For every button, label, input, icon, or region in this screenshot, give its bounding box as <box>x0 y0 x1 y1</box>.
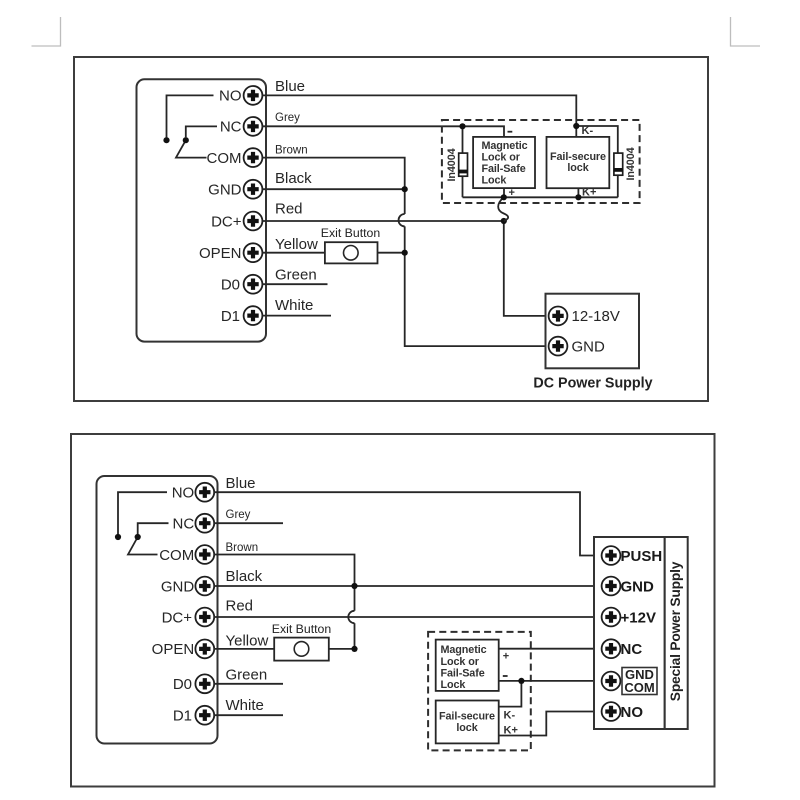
terminal block J2 <box>97 476 218 744</box>
svg-text:Special Power Supply: Special Power Supply <box>668 561 683 701</box>
svg-text:K-: K- <box>504 710 516 722</box>
PS2 terminal GND <box>602 577 654 596</box>
svg-text:Exit Button: Exit Button <box>321 226 381 240</box>
svg-text:Magnetic: Magnetic <box>482 140 528 152</box>
svg-text:Yellow: Yellow <box>275 236 318 253</box>
svg-text:In4004: In4004 <box>625 147 637 180</box>
svg-text:+: + <box>503 651 509 663</box>
wire: magnetic lock + to NC terminal of PS2 <box>499 648 601 650</box>
svg-text:lock: lock <box>567 162 589 174</box>
PS2 terminal PUSH <box>602 546 663 565</box>
svg-text:D1: D1 <box>221 308 240 325</box>
terminal NC (J2 pin 2) <box>173 514 215 533</box>
svg-text:Green: Green <box>275 267 317 284</box>
junction dot: fail-secure K+ on bottom rail <box>575 194 581 200</box>
wire Green: D0 stub <box>214 683 283 685</box>
wire: exit button to brown vertical junction <box>329 648 355 650</box>
svg-text:OPEN: OPEN <box>152 641 195 658</box>
svg-text:Black: Black <box>226 568 263 585</box>
svg-text:Red: Red <box>226 597 254 614</box>
svg-text:Grey: Grey <box>275 112 300 124</box>
lock group dashed enclosure (top) <box>442 120 640 203</box>
terminal NC (J1 pin 2) <box>220 117 263 136</box>
svg-text:GND: GND <box>161 578 195 595</box>
wire Green: D0 stub <box>262 283 328 285</box>
svg-text:D1: D1 <box>173 708 192 725</box>
wire Black: GND terminal to brown vertical junction <box>262 188 405 190</box>
wire White: D1 stub <box>262 315 331 317</box>
crop mark top-left <box>32 17 61 46</box>
wire: fail-secure K+ to NO terminal of PS2 <box>499 712 601 736</box>
wire: diode D1 leads <box>462 126 464 197</box>
junction dot: blue wire at K- rail <box>573 123 579 129</box>
panel 2 border (bottom diagram) <box>71 434 715 787</box>
wire Red: DC+ terminal to lock + junction <box>262 220 504 222</box>
terminal GND (J2 pin 4) <box>161 577 214 596</box>
wire Yellow: OPEN terminal to exit button <box>214 648 274 650</box>
terminal COM (J2 pin 3) <box>159 545 214 564</box>
junction dot: black wire joins brown vertical <box>402 186 408 192</box>
svg-text:Brown: Brown <box>226 542 259 554</box>
relay switch S1: NC contact wire <box>186 126 217 137</box>
wire White: D1 stub <box>214 714 283 716</box>
terminal D1 (J2 pin 8) <box>173 706 214 725</box>
svg-text:Fail-secure: Fail-secure <box>439 710 495 722</box>
junction dot: black wire on brown vertical <box>351 583 357 589</box>
relay switch S2: lever (NC to COM) <box>128 537 158 555</box>
svg-text:White: White <box>275 297 313 314</box>
svg-text:Lock or: Lock or <box>441 656 480 668</box>
fail-secure lock box (top) <box>547 137 610 188</box>
svg-text:NO: NO <box>621 704 644 721</box>
panel 1 border (top diagram) <box>74 57 708 401</box>
magnetic lock box (bottom) <box>436 640 499 691</box>
svg-text:lock: lock <box>456 722 478 734</box>
svg-text:Yellow: Yellow <box>226 632 269 649</box>
terminal D1 (J1 pin 8) <box>221 306 263 325</box>
exit button SW1 <box>325 242 378 263</box>
junction dot: grey wire at diode D1 top <box>459 123 465 129</box>
junction dot: exit button wire joins brown vertical <box>402 250 408 256</box>
wire: top-right rail to diode D2 <box>576 126 618 153</box>
terminal block J1 <box>137 79 267 341</box>
diode D2 In4004 body <box>614 153 623 175</box>
special power supply PS2 label strip <box>665 537 688 729</box>
wire Grey: NC terminal to diode D1 top <box>262 125 463 127</box>
polarity label - (magnetic lock, bottom) <box>503 675 508 677</box>
svg-text:PUSH: PUSH <box>621 548 663 565</box>
svg-text:Blue: Blue <box>226 475 256 492</box>
svg-text:DC+: DC+ <box>162 609 193 626</box>
special power supply PS2 terminal box <box>594 537 665 729</box>
svg-text:In4004: In4004 <box>446 148 458 181</box>
fail-secure lock box (bottom) <box>436 701 499 744</box>
wire: diode D2 bottom lead <box>617 175 619 197</box>
wire: bottom rail (+ / K+) <box>463 196 618 198</box>
svg-text:Red: Red <box>275 201 303 218</box>
PS1 terminal GND <box>549 337 605 356</box>
wire: exit button to brown vertical junction <box>378 252 405 254</box>
svg-text:Blue: Blue <box>275 78 305 95</box>
junction dot: magnetic lock + on bottom rail <box>501 194 507 200</box>
svg-text:NC: NC <box>220 119 242 136</box>
relay switch S2: NC contact wire <box>138 523 169 534</box>
relay switch S2: NC contact dot <box>135 534 141 540</box>
svg-text:Green: Green <box>226 666 268 683</box>
terminal D0 (J1 pin 7) <box>221 275 263 294</box>
svg-text:Fail-Safe: Fail-Safe <box>441 667 485 679</box>
svg-text:K+: K+ <box>504 725 518 737</box>
svg-text:Lock: Lock <box>482 174 508 186</box>
wire Yellow: OPEN terminal to exit button <box>262 252 325 254</box>
junction dot: red wire at lock + squiggle <box>501 218 507 224</box>
relay switch S1: NO contact dot <box>163 137 169 143</box>
wire: magnetic lock - to GND/COM terminal of PS2 <box>499 680 601 682</box>
terminal COM (J1 pin 3) <box>207 148 263 167</box>
crop mark top-right <box>731 17 761 46</box>
svg-text:12-18V: 12-18V <box>572 308 620 325</box>
wire Brown: COM terminal down to exit-button junction <box>214 555 355 611</box>
relay switch S1: NC contact dot <box>183 137 189 143</box>
junction dot: K- joins - wire <box>518 678 524 684</box>
terminal DC+ (J1 pin 5) <box>211 212 262 231</box>
svg-text:+: + <box>509 187 515 199</box>
wire Brown continuation to exit button junction <box>354 623 356 649</box>
svg-text:K+: K+ <box>582 187 596 199</box>
wire: magnetic lock + drop <box>503 188 505 197</box>
exit button SW2 <box>274 638 329 661</box>
wire: fail-secure K- up to - wire junction <box>499 681 522 707</box>
svg-text:Exit Button: Exit Button <box>272 622 332 636</box>
wire Black: GND terminal to special supply GND <box>214 585 601 587</box>
PS2 terminal +12V <box>602 608 656 627</box>
PS2 terminal NO <box>602 702 644 721</box>
wire Blue: NO terminal to K- rail <box>262 95 576 126</box>
wire Brown: COM terminal down to junctions <box>262 158 405 214</box>
svg-text:NC: NC <box>173 516 195 533</box>
svg-text:Lock or: Lock or <box>482 151 521 163</box>
svg-text:Black: Black <box>275 170 312 187</box>
svg-text:DC Power Supply: DC Power Supply <box>533 375 652 391</box>
squiggle wire: lock + rail to red wire <box>498 197 508 221</box>
svg-text:K-: K- <box>582 125 594 137</box>
terminal NO (J2 pin 1) <box>172 483 215 502</box>
wire Red: DC+ terminal to special supply +12V <box>214 616 601 618</box>
wire Grey: NC stub <box>214 522 283 524</box>
DC power supply PS1 box <box>546 294 640 369</box>
wire: K- drop into fail-secure lock <box>575 126 577 137</box>
PS2 terminal GND/COM <box>602 667 657 695</box>
svg-text:Grey: Grey <box>226 509 251 521</box>
svg-text:+12V: +12V <box>621 609 656 626</box>
terminal OPEN (J1 pin 6) <box>199 243 262 262</box>
PS1 terminal 12-18V <box>549 307 620 326</box>
wire hop: brown vertical crossing over red wire <box>348 611 354 623</box>
PS2 terminal NC <box>602 639 643 658</box>
terminal DC+ (J2 pin 5) <box>162 608 215 627</box>
wire Red continuation down to DC power supply 12-18V <box>504 221 549 316</box>
relay switch S2: NO contact wire <box>118 492 167 534</box>
wire hop: brown vertical crossing over red wire <box>399 214 405 226</box>
svg-text:COM: COM <box>159 547 194 564</box>
svg-text:NC: NC <box>621 641 643 658</box>
svg-text:NO: NO <box>172 485 195 502</box>
relay switch S1: NO contact wire <box>167 95 214 137</box>
magnetic lock box (top) <box>473 137 535 188</box>
svg-text:D0: D0 <box>173 676 192 693</box>
svg-text:D0: D0 <box>221 277 240 294</box>
wire: fail-secure K+ drop <box>577 188 579 197</box>
svg-text:OPEN: OPEN <box>199 245 242 262</box>
terminal NO (J1 pin 1) <box>219 86 262 105</box>
svg-text:GND: GND <box>208 182 242 199</box>
svg-text:NO: NO <box>219 88 242 105</box>
terminal GND (J1 pin 4) <box>208 180 262 199</box>
svg-text:Lock: Lock <box>441 679 467 691</box>
svg-text:COM: COM <box>624 680 654 695</box>
svg-text:COM: COM <box>207 150 242 167</box>
svg-text:Fail-Safe: Fail-Safe <box>482 163 526 175</box>
terminal OPEN (J2 pin 6) <box>152 640 215 659</box>
svg-text:White: White <box>226 697 264 714</box>
junction dot: exit button wire joins brown vertical <box>351 646 357 652</box>
polarity label - (magnetic lock top) <box>508 131 513 133</box>
svg-text:DC+: DC+ <box>211 213 242 230</box>
svg-text:GND: GND <box>572 338 606 355</box>
wire: top-left rail to magnetic lock - terminal <box>463 126 505 137</box>
wire Blue: NO terminal to PUSH <box>214 492 601 555</box>
svg-text:GND: GND <box>621 578 655 595</box>
terminal D0 (J2 pin 7) <box>173 674 214 693</box>
diode D1 In4004 body <box>459 153 468 176</box>
lock group dashed enclosure (bottom) <box>428 632 531 751</box>
svg-text:Brown: Brown <box>275 145 308 157</box>
svg-text:Magnetic: Magnetic <box>441 644 487 656</box>
wire Brown continuation down to DC power supply GND <box>405 226 549 346</box>
relay switch S2: NO contact dot <box>115 534 121 540</box>
relay switch S1: lever (NC to COM) <box>176 140 207 157</box>
